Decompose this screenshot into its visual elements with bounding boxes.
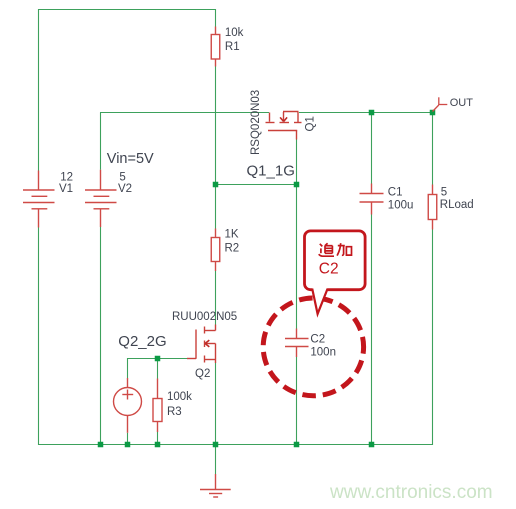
svg-text:5: 5 — [441, 187, 447, 199]
wire C1 top — [371, 112, 373, 184]
node junction dot C1 top rail — [369, 110, 375, 116]
transistor Q1 (RSQ020N03) — [266, 112, 302, 140]
wire Q1 drain rail to OUT — [299, 112, 433, 114]
net flag OUT — [433, 97, 448, 111]
svg-text:100n: 100n — [310, 347, 336, 359]
callout text 加 (hand-drawn glyph) — [337, 243, 351, 255]
svg-text:10k: 10k — [225, 27, 244, 39]
svg-text:R1: R1 — [225, 41, 240, 53]
transistor Q2 (RUU002N05) — [187, 325, 216, 364]
wire Q1_1G to C2 top — [296, 185, 298, 329]
svg-text:100k: 100k — [167, 391, 192, 403]
ground — [200, 474, 231, 497]
svg-text:C2: C2 — [310, 334, 325, 346]
resistor R2 — [211, 229, 220, 272]
wire V2 bottom to ground rail — [100, 227, 102, 444]
wire V2 top to Q1 source rail — [100, 113, 269, 170]
node junction dot rail C1 — [369, 442, 375, 448]
highlight dashed circle around C2 — [263, 298, 363, 396]
svg-text:C2: C2 — [319, 261, 339, 278]
svg-text:RUU002N05: RUU002N05 — [172, 311, 237, 323]
svg-text:1K: 1K — [225, 229, 239, 241]
wire R3 top — [157, 358, 159, 379]
wire R2 bottom to Q2 drain — [215, 271, 217, 325]
node junction dot rail V2 — [98, 442, 104, 448]
svg-text:V2: V2 — [118, 183, 132, 195]
svg-text:OUT: OUT — [450, 97, 474, 109]
wire C2 bottom to rail — [296, 357, 298, 444]
wire left vertical upper (V1 top lead) — [38, 9, 40, 171]
svg-text:Vin=5V: Vin=5V — [107, 151, 154, 167]
svg-text:RSQ020N03: RSQ020N03 — [250, 90, 262, 155]
svg-text:C1: C1 — [388, 186, 403, 198]
wire R1 bottom to node Q1_1G — [215, 67, 217, 229]
capacitor C1 — [360, 184, 384, 215]
svg-text:12: 12 — [60, 171, 73, 183]
node junction dot Q1_1G left — [213, 182, 219, 188]
svg-text:R2: R2 — [225, 243, 240, 255]
wire V3 top lead — [127, 358, 129, 378]
wire Q1 gate down to node Q1_1G — [296, 139, 298, 184]
wire left vertical lower (V1 bottom to rail) — [38, 228, 40, 446]
wire V3 bottom to rail — [127, 433, 129, 444]
node junction dot rail V3 — [125, 442, 131, 448]
resistor R3 — [153, 379, 162, 433]
svg-text:Q2: Q2 — [195, 368, 210, 380]
capacitor C2 — [285, 329, 309, 358]
svg-text:100u: 100u — [388, 199, 414, 211]
wire bottom ground rail — [38, 444, 433, 446]
node junction dot rail R3 — [155, 442, 161, 448]
resistor R1 — [211, 27, 220, 67]
wire Q2 gate row — [128, 358, 188, 360]
node junction dot OUT corner — [430, 110, 436, 116]
wire Q2 source to rail — [215, 363, 217, 444]
wire ground stub — [215, 444, 217, 474]
svg-text:V1: V1 — [59, 183, 73, 195]
svg-text:5: 5 — [119, 171, 125, 183]
callout text 追 (hand-drawn glyph) — [319, 243, 334, 256]
wire OUT to RLoad top — [432, 112, 434, 185]
wire R1 top lead — [215, 9, 217, 27]
transistor Q2 body arrow — [205, 340, 209, 347]
node junction dot R3 gate row — [155, 356, 161, 362]
wire R3 bottom — [157, 432, 159, 444]
node junction dot rail C2 — [294, 442, 300, 448]
svg-text:Q1: Q1 — [305, 116, 317, 131]
svg-text:Q2_2G: Q2_2G — [118, 333, 166, 350]
wire top rail V1 to R1 — [38, 9, 216, 11]
resistor RLoad — [428, 185, 437, 230]
transistor Q1 body arrow — [280, 117, 287, 121]
svg-text:R3: R3 — [167, 406, 182, 418]
voltage source V3 — [114, 378, 142, 433]
svg-text:Q1_1G: Q1_1G — [247, 163, 295, 180]
node junction dot Q1_1G right — [294, 182, 300, 188]
node junction dot rail Q2/ground — [213, 442, 219, 448]
callout balloon (add C2) — [305, 231, 366, 314]
battery V2 — [85, 170, 117, 227]
wire C1 bottom — [371, 215, 373, 445]
battery V1 — [23, 171, 55, 228]
wire RLoad bottom to rail — [432, 230, 434, 446]
wire node Q1_1G horizontal — [216, 184, 297, 186]
svg-text:www.cntronics.com: www.cntronics.com — [329, 482, 493, 503]
svg-text:RLoad: RLoad — [440, 199, 474, 211]
